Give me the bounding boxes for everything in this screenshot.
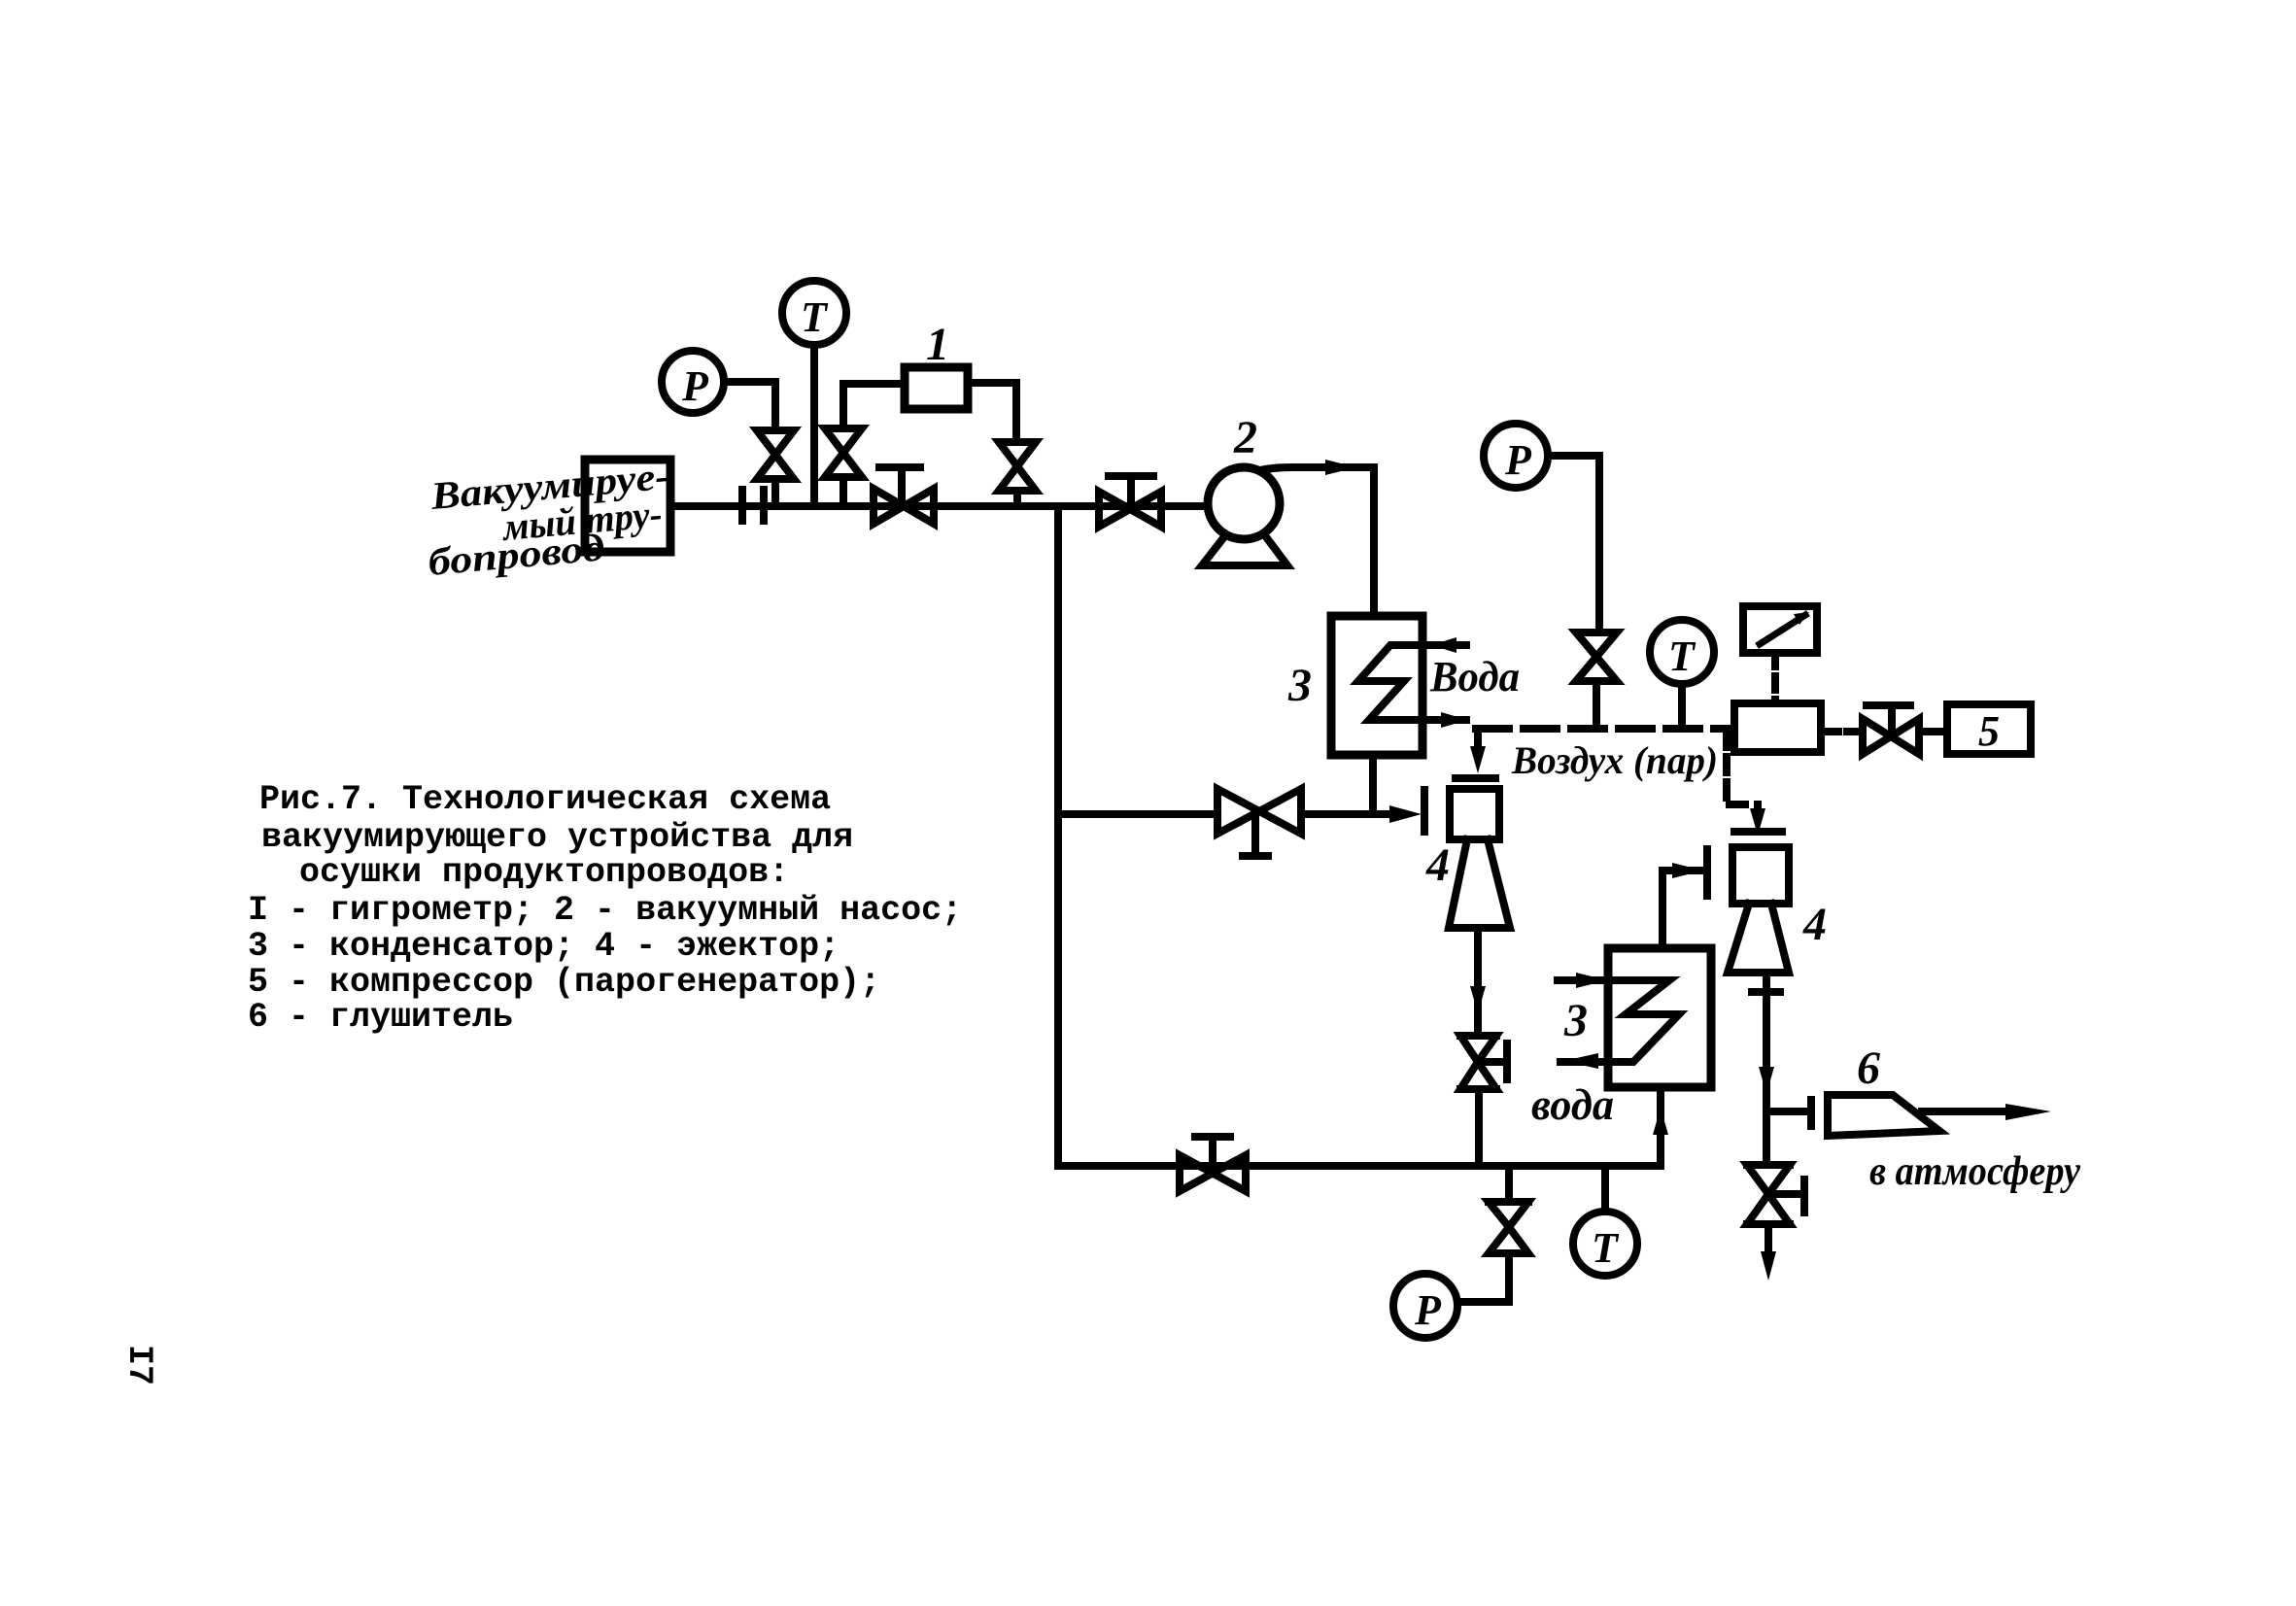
svg-text:5 - компрессор (парогенератор): 5 - компрессор (парогенератор); bbox=[248, 963, 880, 1002]
svg-text:6 - глушитель: 6 - глушитель bbox=[248, 998, 513, 1037]
muffler 6 bbox=[1828, 1095, 1939, 1136]
svg-text:бопровод: бопровод bbox=[427, 525, 606, 584]
svg-text:I7: I7 bbox=[120, 1345, 158, 1385]
thermometer T1 bbox=[782, 281, 846, 506]
condenser 3 coil with water arrows bbox=[1358, 637, 1468, 728]
svg-text:6: 6 bbox=[1857, 1042, 1880, 1094]
gate valve V1 on main line bbox=[874, 467, 934, 524]
condenser lower coil with water arrows bbox=[1558, 973, 1679, 1069]
svg-text:T: T bbox=[1592, 1224, 1620, 1272]
dashed link to box 5 bbox=[1922, 728, 1945, 735]
indicator instrument bbox=[1743, 606, 1817, 703]
gate valve E bbox=[1863, 705, 1919, 754]
ejector 1 (4) bbox=[1449, 789, 1510, 928]
svg-text:осушки продуктопроводов:: осушки продуктопроводов: bbox=[299, 853, 789, 892]
tee to muffler bbox=[1766, 1100, 1811, 1126]
ejector 2 discharge bbox=[1752, 974, 1780, 1111]
svg-text:4: 4 bbox=[1802, 899, 1827, 950]
compressor box 5 bbox=[1947, 704, 2031, 754]
valve D below P2 bbox=[1576, 632, 1617, 729]
pump discharge line with arrow bbox=[1260, 460, 1374, 616]
main suction pipe bbox=[670, 502, 1208, 510]
lower pipe bbox=[1058, 1162, 1661, 1170]
ejector 1 discharge with arrow bbox=[1470, 928, 1486, 1036]
lower pipe riser to condenser 2 with arrow bbox=[1653, 1087, 1668, 1166]
drain valve F below tee bbox=[1747, 1111, 1804, 1281]
flange tick 2 bbox=[760, 490, 768, 521]
pressure gauge P3 bbox=[1393, 1274, 1457, 1338]
left trunk line bbox=[1054, 506, 1062, 1166]
svg-text:4: 4 bbox=[1425, 839, 1450, 891]
vacuum pump 2 bbox=[1202, 467, 1287, 565]
pressure gauge P2 bbox=[1484, 424, 1599, 632]
condenser 3 (lower) bbox=[1608, 948, 1711, 1087]
valve J on P3 branch bbox=[1459, 1202, 1528, 1302]
svg-text:3: 3 bbox=[1563, 995, 1588, 1046]
svg-text:I - гигрометр; 2 - вакуумный н: I - гигрометр; 2 - вакуумный насос; bbox=[248, 891, 962, 930]
svg-text:P: P bbox=[681, 362, 709, 410]
svg-text:Вода: Вода bbox=[1429, 653, 1520, 700]
svg-text:вакуумирующего устройства для: вакуумирующего устройства для bbox=[261, 818, 853, 857]
svg-text:2: 2 bbox=[1233, 412, 1257, 463]
svg-text:T: T bbox=[1668, 632, 1696, 680]
ejector 1 suction flange bbox=[1421, 790, 1428, 832]
gate valve V2 on main line bbox=[1099, 476, 1161, 527]
thermometer T3 bbox=[1573, 1166, 1637, 1276]
svg-text:P: P bbox=[1504, 436, 1532, 484]
condenser 2 overhead to ejector 2 bbox=[1662, 849, 1707, 948]
branch to P3 gauge bbox=[1505, 1166, 1513, 1199]
svg-text:P: P bbox=[1414, 1286, 1442, 1334]
valve B (hygrometer branch left, hourglass) bbox=[825, 384, 905, 506]
valve H below ejector 1 bbox=[1460, 1036, 1507, 1166]
svg-text:в атмосферу: в атмосферу bbox=[1869, 1149, 2080, 1194]
ejector 1 motive inlet bbox=[1456, 729, 1505, 778]
pressure gauge P1 bbox=[662, 351, 775, 430]
svg-text:Рис.7. Технологическая схема: Рис.7. Технологическая схема bbox=[259, 780, 831, 819]
figure caption typewritten bbox=[248, 780, 962, 1037]
dashed drop to ejector 2 bbox=[1727, 732, 1782, 836]
source box (vacuumed pipeline) bbox=[585, 460, 670, 552]
svg-text:1: 1 bbox=[926, 319, 949, 370]
condenser 3 (upper) bbox=[1331, 616, 1422, 755]
svg-text:Воздух (пар): Воздух (пар) bbox=[1511, 738, 1718, 782]
valve I on lower pipe bbox=[1180, 1137, 1246, 1191]
svg-text:3 - конденсатор; 4 - эжектор;: 3 - конденсатор; 4 - эжектор; bbox=[248, 927, 840, 966]
flange tick 1 bbox=[738, 490, 746, 521]
exhaust arrow to atmosphere bbox=[1922, 1104, 2051, 1120]
hygrometer 1 bbox=[905, 367, 968, 409]
air/steam dashed header bbox=[1476, 725, 1734, 733]
valve G on middle branch bbox=[1217, 789, 1301, 856]
svg-text:5: 5 bbox=[1978, 707, 2000, 755]
middle branch pipe bbox=[1058, 810, 1217, 818]
svg-text:3: 3 bbox=[1287, 660, 1312, 711]
svg-text:T: T bbox=[801, 293, 829, 341]
ejector 2 (4) bbox=[1728, 847, 1789, 973]
thermometer T2 bbox=[1650, 620, 1714, 729]
transmitter box bbox=[1734, 703, 1821, 752]
dashed link to valve E bbox=[1824, 728, 1860, 735]
middle branch continuation with arrow bbox=[1301, 805, 1422, 823]
svg-text:вода: вода bbox=[1531, 1079, 1614, 1129]
valve A (P1 isolation, hourglass) bbox=[757, 430, 794, 506]
valve C (hygrometer branch right, hourglass) bbox=[968, 383, 1036, 506]
condenser 3 drain bbox=[1369, 755, 1377, 814]
